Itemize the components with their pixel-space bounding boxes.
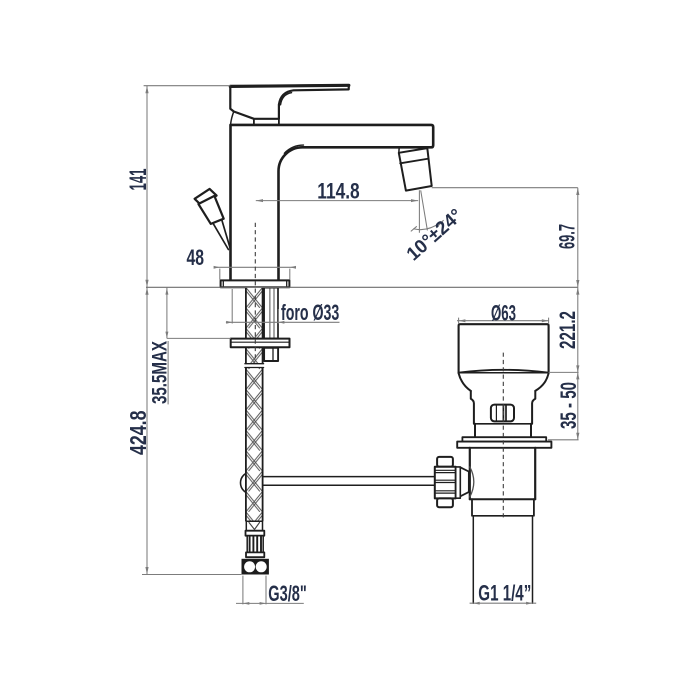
G3/8 dimension line [236,602,304,604]
aerator extension line [432,187,578,189]
G3/8 union nut [242,559,269,575]
washer flange under counter [231,339,290,348]
G1 1/4 dimension line [470,602,537,604]
left main dimension line 141 / 424.8 [146,86,148,575]
flexible braided hose [246,288,263,521]
svg-text:114.8: 114.8 [317,178,359,203]
svg-text:35 - 50: 35 - 50 [556,382,581,429]
lower band [246,552,264,557]
35.5 arrows [165,288,168,295]
cone to thumb nut [460,467,468,496]
G3/8 extension lines [243,576,266,605]
G1 1/4 arrows [473,602,479,605]
G3/8 arrows [243,602,249,605]
angle arc [413,222,441,230]
foro extension lines [232,289,278,324]
tailpipe G1 1/4 [473,516,532,603]
svg-text:G3/8": G3/8" [268,581,307,606]
handle pivot line [231,112,234,125]
pop-up rod (horizontal) [259,477,435,486]
flare cone [459,373,549,391]
48 extension lines [220,269,290,280]
rod ball joint [241,472,263,494]
arrows [145,86,579,605]
svg-text:foro Ø33: foro Ø33 [281,300,339,325]
base plate [221,280,290,287]
svg-text:69.7: 69.7 [555,224,580,249]
bottom reference line [142,574,241,576]
foro arrows (outside) [226,321,232,324]
svg-text:48: 48 [187,245,205,270]
O63 dimension line + extensions [457,320,549,322]
114.8 dimension line [256,200,418,202]
threaded shank [264,288,278,339]
tail shoulder [472,499,534,516]
48 arrows (outside) [214,266,220,269]
35.5MAX dimension line [166,287,168,338]
cartridge collar [254,119,279,125]
faucet centerline [254,223,256,361]
left dim at counter: down + up [145,280,148,288]
drain top extension line [549,371,579,373]
svg-text:35.5MAX: 35.5MAX [148,341,172,404]
lever handle [230,85,348,119]
hose end ferrule [246,521,262,531]
clamp nut block [264,348,278,361]
35.5MAX text underline [167,341,169,404]
drain flange [457,437,551,448]
ribbed nut section [247,536,263,553]
angle arc ticks [411,220,444,231]
pull-rod knob [195,189,231,250]
svg-text:G1 1/4”: G1 1/4” [478,581,531,606]
centerlines [255,223,503,521]
foro dimension + text underline [226,321,340,323]
114.8 arrows [256,199,263,202]
svg-text:221.2: 221.2 [555,311,580,349]
right dim arrows [576,188,579,195]
aerator angle lines [419,190,427,233]
right dimension line 69.7/221.2/35-50 [577,188,579,440]
pop-up plug head [459,324,549,373]
48 dimension line [214,266,294,268]
ferrule band [246,531,265,536]
body section line [474,423,532,425]
body and spout [231,125,434,281]
overflow clamp detail [491,405,514,422]
svg-text:141: 141 [125,169,152,191]
drain flange extension line [548,439,579,441]
left dim bottom down [145,567,148,575]
O63 arrows [459,319,466,322]
drain body below flange [470,448,535,499]
lower neck [475,424,531,437]
upper drain body [471,391,536,424]
counter reference line [146,286,578,288]
rod boss arc [470,467,474,497]
35.5MAX reference line to washer [167,337,231,339]
svg-text:Ø63: Ø63 [491,301,516,326]
svg-text:424.8: 424.8 [125,411,151,456]
drain centerline [502,353,504,521]
left dim: top up [145,86,148,94]
top extension line (handle top) [144,85,231,87]
aerator [399,148,432,191]
hose break lines [245,364,264,368]
knurled thumb nut [435,457,461,507]
